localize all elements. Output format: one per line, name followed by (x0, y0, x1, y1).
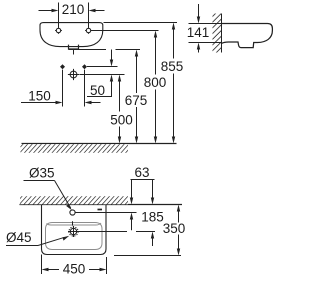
svg-text:63: 63 (134, 165, 149, 180)
basin front view outline (40, 23, 103, 47)
dimension line 675 (136, 56, 138, 138)
svg-text:855: 855 (161, 59, 184, 74)
extension line: fixing holes to 800 (91, 30, 159, 32)
dimension 150/50 opposing arrow (91, 102, 101, 104)
drain outlet stub (front view) (69, 45, 79, 49)
small gap dimension upper arrow (111, 50, 113, 61)
dimension 450 (42, 255, 107, 275)
overflow dash (98, 209, 103, 211)
extension line below diamond left (62, 70, 64, 107)
svg-text:141: 141 (187, 25, 210, 40)
basin side profile (222, 24, 273, 48)
svg-text:Ø45: Ø45 (6, 230, 32, 245)
supply connection symbol (68, 69, 79, 80)
dimension line 500 (119, 81, 121, 138)
side view wall (213, 14, 222, 53)
small gap dimension lower arrow (50) (111, 81, 113, 97)
fixing hole right (front view) (85, 27, 92, 34)
svg-text:350: 350 (163, 221, 186, 236)
wall fixing diamond left (60, 64, 65, 69)
tap hole extension line (to 63/185) (75, 212, 136, 214)
dimension line 800 (155, 37, 157, 138)
floor hatching (21, 144, 129, 153)
svg-text:675: 675 (125, 93, 148, 108)
drain center stub line (73, 50, 75, 55)
extension line: supply level line (80, 74, 125, 76)
svg-text:50: 50 (90, 83, 105, 98)
plan view wall hatching (20, 196, 128, 204)
350 bottom extension line (114, 255, 181, 257)
extension line: basin top edge to 855 (104, 22, 178, 24)
dimension 150 (21, 102, 57, 104)
svg-text:210: 210 (62, 2, 85, 17)
svg-text:185: 185 (141, 210, 164, 225)
dimension 350 (178, 211, 180, 250)
dimension 185 arrows (131, 219, 133, 230)
svg-text:500: 500 (110, 113, 133, 128)
plan view wall line (20, 204, 183, 206)
svg-text:Ø35: Ø35 (29, 166, 55, 181)
wall fixing diamond right (82, 64, 87, 69)
dimension 141 (189, 23, 222, 25)
extension line: diamond level line (87, 66, 118, 68)
bowl center tick (72, 221, 74, 225)
label 50 leader (87, 96, 112, 98)
basin plan outline (42, 205, 107, 255)
tap hole circle (70, 210, 75, 215)
fixing hole left (front view) (55, 27, 62, 34)
drain symbol plan view (68, 226, 79, 237)
svg-text:800: 800 (144, 75, 167, 90)
drain extension line (79, 231, 155, 233)
inner bowl back ledge line (47, 223, 102, 225)
floor line (22, 143, 177, 145)
svg-text:150: 150 (28, 89, 51, 104)
extension line: drain height to 675 (69, 49, 141, 51)
dimension line 855 (173, 29, 175, 138)
svg-text:450: 450 (63, 262, 86, 277)
inner bowl outline (46, 223, 103, 250)
dimension 63 (131, 179, 155, 181)
extension line below diamond right (84, 70, 86, 107)
dimension 210 (39, 3, 105, 28)
